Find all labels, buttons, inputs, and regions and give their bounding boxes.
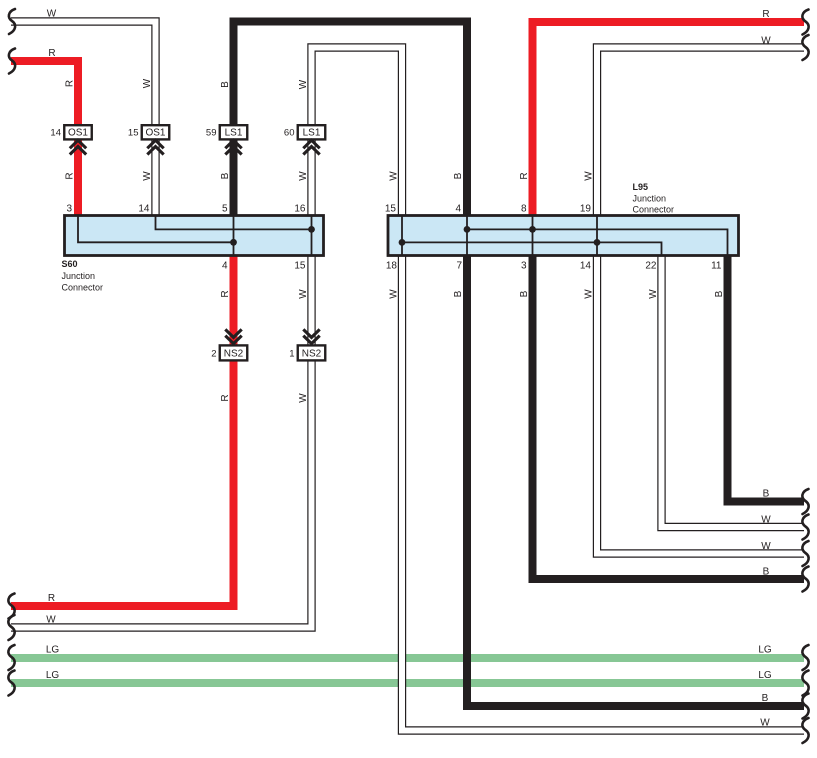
svg-text:3: 3	[521, 261, 527, 272]
svg-text:B: B	[453, 172, 464, 179]
connector 14 OS1	[50, 125, 91, 154]
wire B from L95 pin 11 down to right edge	[728, 256, 805, 502]
svg-text:W: W	[47, 9, 57, 20]
svg-text:B: B	[220, 81, 231, 88]
svg-text:15: 15	[385, 204, 397, 215]
svg-text:14: 14	[138, 204, 150, 215]
pin numbers L95 bottom: 18 7 3 14 22 11	[386, 261, 722, 272]
wire break squiggles left edge	[8, 9, 15, 696]
wire W from L95 pin 18 down to bottom right edge	[402, 256, 804, 731]
wire B from S60 pin 5 through 59 LS1 up over to L95 pin 4	[234, 22, 468, 216]
svg-text:R: R	[65, 80, 76, 87]
svg-text:W: W	[648, 289, 659, 299]
svg-text:LG: LG	[758, 645, 772, 656]
svg-text:LG: LG	[46, 670, 60, 681]
svg-text:W: W	[584, 171, 595, 181]
connector 15 OS1	[128, 125, 169, 154]
wire R from L95 pin 8 up to right edge	[533, 22, 805, 216]
svg-text:Connector: Connector	[633, 204, 675, 214]
svg-text:16: 16	[294, 204, 306, 215]
wire LG horizontal 2 (full width)	[11, 679, 804, 687]
svg-text:S60: S60	[62, 259, 78, 269]
svg-text:W: W	[142, 78, 153, 88]
svg-text:60: 60	[284, 128, 295, 139]
wire B from L95 pin 7 down to right edge	[467, 256, 804, 707]
svg-text:22: 22	[645, 261, 657, 272]
svg-text:1: 1	[289, 349, 294, 360]
wire W from 60 LS1 up over to L95 pin 15	[312, 48, 403, 216]
svg-text:R: R	[65, 172, 76, 179]
svg-text:59: 59	[206, 128, 217, 139]
connector 60 LS1	[284, 125, 325, 154]
svg-text:5: 5	[222, 204, 228, 215]
junction connector S60	[65, 216, 324, 256]
svg-text:15: 15	[128, 128, 139, 139]
svg-text:LS1: LS1	[303, 128, 321, 139]
svg-text:W: W	[298, 289, 309, 299]
svg-text:14: 14	[580, 261, 592, 272]
pin numbers L95 top: 15 4 8 19	[385, 204, 592, 215]
svg-text:W: W	[761, 36, 771, 47]
wire W top-left (left edge to 15 OS1 to S60 pin 14)	[11, 22, 156, 216]
svg-text:NS2: NS2	[302, 349, 322, 360]
svg-text:B: B	[714, 290, 725, 297]
connector 59 LS1	[206, 125, 247, 154]
svg-text:W: W	[389, 289, 400, 299]
svg-text:W: W	[761, 541, 771, 552]
svg-text:W: W	[389, 171, 400, 181]
pin numbers S60 bottom: 4 15	[222, 261, 306, 272]
pin numbers S60 top: 3 14 5 16	[66, 204, 305, 215]
svg-text:OS1: OS1	[68, 128, 88, 139]
svg-text:B: B	[762, 693, 769, 704]
wire LG horizontal 1 (full width)	[11, 654, 804, 662]
svg-text:R: R	[519, 172, 530, 179]
svg-text:W: W	[298, 79, 309, 89]
connector 1 NS2	[289, 329, 325, 360]
wire break squiggles right edge	[802, 10, 808, 744]
svg-text:W: W	[760, 718, 770, 729]
svg-text:W: W	[142, 171, 153, 181]
junction connector L95	[388, 216, 739, 256]
svg-text:8: 8	[521, 204, 527, 215]
svg-text:W: W	[298, 171, 309, 181]
svg-text:2: 2	[211, 349, 216, 360]
svg-text:7: 7	[456, 261, 462, 272]
svg-text:R: R	[48, 593, 55, 604]
svg-text:W: W	[46, 615, 56, 626]
svg-text:W: W	[298, 393, 309, 403]
svg-text:R: R	[220, 394, 231, 401]
wire W from S60 pin 15 through 1 NS2 down to left edge	[11, 256, 312, 628]
svg-text:NS2: NS2	[224, 349, 244, 360]
wire R top-left (left edge through 14 OS1 to S60 pin 3)	[11, 61, 78, 216]
svg-text:B: B	[763, 489, 770, 500]
svg-text:3: 3	[66, 204, 72, 215]
svg-text:LG: LG	[46, 645, 60, 656]
wire W from L95 pin 19 up to right edge	[597, 48, 804, 216]
wire W from L95 pin 22 down to right edge	[662, 256, 805, 528]
connector 2 NS2	[211, 329, 247, 360]
wire colour labels rotated (vertical runs)	[65, 78, 726, 403]
svg-text:B: B	[453, 290, 464, 297]
wire R from S60 pin 4 through 2 NS2 down to left edge	[11, 256, 234, 607]
label L95 Junction Connector	[633, 182, 675, 214]
svg-text:OS1: OS1	[145, 128, 165, 139]
svg-text:4: 4	[222, 261, 228, 272]
svg-text:R: R	[48, 48, 55, 59]
svg-text:LS1: LS1	[225, 128, 243, 139]
svg-text:11: 11	[711, 261, 722, 272]
svg-text:B: B	[519, 290, 530, 297]
svg-text:LG: LG	[758, 670, 772, 681]
svg-text:W: W	[761, 515, 771, 526]
svg-text:4: 4	[455, 204, 461, 215]
svg-text:Junction: Junction	[62, 271, 96, 281]
svg-text:B: B	[763, 567, 770, 578]
svg-text:19: 19	[580, 204, 592, 215]
svg-text:W: W	[584, 289, 595, 299]
wire B from L95 pin 3 down to right edge	[533, 256, 805, 580]
svg-text:R: R	[762, 9, 769, 20]
svg-text:R: R	[220, 290, 231, 297]
svg-text:Junction: Junction	[633, 194, 667, 204]
svg-text:B: B	[220, 172, 231, 179]
svg-text:L95: L95	[633, 182, 649, 192]
label S60 Junction Connector	[62, 259, 104, 293]
svg-text:14: 14	[50, 128, 61, 139]
svg-text:15: 15	[294, 261, 306, 272]
svg-text:Connector: Connector	[62, 283, 104, 293]
svg-text:18: 18	[386, 261, 398, 272]
wire W from L95 pin 14 down to right edge	[597, 256, 804, 554]
